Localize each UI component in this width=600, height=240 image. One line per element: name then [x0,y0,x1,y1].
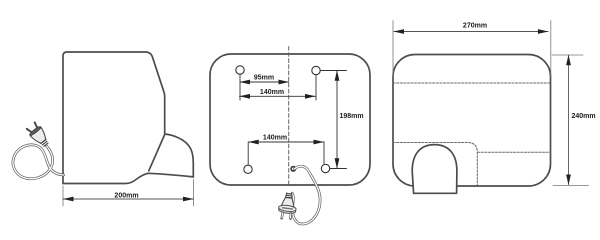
dimension 240mm arrows [566,55,571,185]
svg-text:240mm: 240mm [572,113,596,120]
cable grommet [291,167,295,171]
back view power plug [277,192,298,220]
svg-text:200mm: 200mm [114,192,138,199]
svg-text:140mm: 140mm [260,89,284,96]
side view cord [13,145,64,179]
dimension 140mm bottom extension lines [248,142,324,164]
back plate [210,54,370,185]
dimension 198mm line [336,71,338,169]
front view hidden outlet line right [478,151,551,153]
dimension 198mm reference lines [321,71,347,169]
dimension 270mm arrows [394,29,549,34]
mounting hole top-right [312,66,320,74]
side view scoop outer profile [165,134,194,177]
side view air outlet diagonal [149,135,165,171]
back plate centre line [288,47,290,185]
front view hidden outlet line left [393,143,477,186]
dimension 240mm extension lines [552,55,589,186]
dimension 270mm extension lines [393,21,551,78]
front view nozzle [412,145,457,194]
mounting hole bottom-right [321,164,329,172]
dimension 140mm bottom arrows [248,140,324,145]
dimension 200mm arrows [63,197,194,202]
back view cord [292,166,320,224]
dimension 95mm arrows [240,80,290,85]
mounting hole top-left [236,66,244,74]
dimension 140mm top arrows [240,94,316,99]
side view body bottom [63,173,148,183]
svg-text:95mm: 95mm [254,75,274,82]
dimension 240mm line [568,55,570,185]
dimension 95mm extension lines [240,75,316,101]
mounting hole bottom-left [244,165,252,173]
svg-text:270mm: 270mm [463,22,487,29]
side view scoop bottom lip [148,173,193,177]
side view power plug [25,121,51,149]
dimension 198mm arrows [335,70,340,168]
front view body [393,55,551,187]
front view face split line [393,82,551,84]
side view body [63,52,165,184]
dimension 200mm line [63,198,194,200]
dimension 140mm top line [240,95,316,97]
dimension 140mm bottom line [249,141,325,143]
dimension 200mm extension lines [63,180,194,207]
dimension 95mm line [240,81,289,83]
svg-text:140mm: 140mm [263,135,287,142]
dimension 270mm line [394,31,548,33]
svg-text:198mm: 198mm [340,113,364,120]
